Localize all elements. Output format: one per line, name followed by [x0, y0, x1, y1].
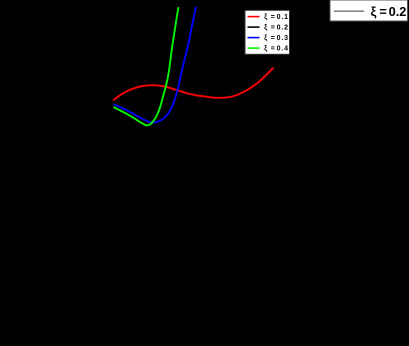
legend sample line black — [248, 26, 260, 28]
legend sample line red — [248, 16, 260, 18]
legend box small — [245, 10, 290, 54]
svg-text:ξ=0.2: ξ=0.2 — [371, 4, 407, 19]
curve xi=0.3 (blue) — [114, 8, 195, 123]
legend sample line green — [248, 47, 260, 49]
curve xi=0.1 (red) — [114, 68, 273, 100]
legend box large — [330, 0, 408, 21]
legend sample line blue — [248, 37, 260, 39]
legend sample line (black) — [334, 10, 364, 12]
curve xi=0.4 (green) — [114, 8, 178, 125]
